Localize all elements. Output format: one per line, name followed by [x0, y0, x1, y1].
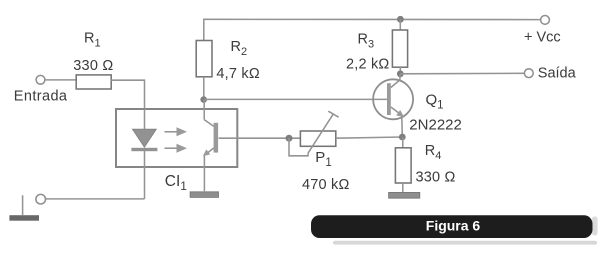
svg-text:R3: R3	[358, 32, 375, 51]
ground CI1 emitter	[190, 192, 218, 198]
LED D inside CI1	[131, 109, 157, 199]
svg-text:2N2222: 2N2222	[409, 117, 462, 134]
terminal input low	[36, 194, 46, 204]
potentiometer P1	[289, 111, 339, 156]
wire top rail	[204, 19, 541, 40]
phototransistor of CI1	[203, 100, 218, 192]
svg-text:Entrada: Entrada	[14, 89, 68, 105]
light arrow 2	[165, 144, 188, 153]
svg-text:Figura 6: Figura 6	[426, 217, 481, 233]
wire R2 bottom to base node	[203, 77, 205, 100]
svg-text:470 kΩ: 470 kΩ	[302, 177, 350, 193]
node base junction below R2	[200, 96, 207, 103]
resistor R4	[395, 137, 411, 192]
svg-text:P1: P1	[315, 149, 331, 169]
terminal +Vcc	[541, 16, 550, 25]
svg-text:330 Ω: 330 Ω	[416, 170, 456, 186]
svg-text:330 Ω: 330 Ω	[73, 58, 113, 74]
light arrow 1	[165, 127, 188, 136]
wire base node to Q1 base	[204, 98, 387, 100]
ground input	[9, 195, 39, 221]
svg-text:Saída: Saída	[538, 65, 577, 81]
resistor R2	[196, 41, 212, 77]
node Saida junction	[397, 70, 404, 77]
node top rail / R3 junction	[397, 16, 404, 23]
resistor R1	[76, 75, 111, 89]
transistor Q1	[373, 74, 413, 137]
figura banner	[311, 215, 593, 238]
terminal Saida	[524, 69, 533, 78]
svg-text:2,2 kΩ: 2,2 kΩ	[346, 56, 389, 72]
svg-text:CI1: CI1	[165, 173, 188, 193]
svg-text:Q1: Q1	[426, 91, 444, 111]
wire R1 to LED anode	[111, 80, 144, 110]
svg-text:R4: R4	[425, 143, 442, 162]
svg-text:R1: R1	[84, 31, 101, 50]
optocoupler CI1 box	[116, 109, 237, 167]
svg-text:4,7 kΩ: 4,7 kΩ	[216, 66, 259, 82]
node P1 left junction	[286, 135, 293, 142]
figura banner shadow	[333, 241, 597, 245]
terminal Entrada	[36, 75, 45, 84]
ground R4	[389, 192, 420, 198]
wire phototransistor base to P1	[219, 137, 301, 139]
wire Entrada to R1	[45, 79, 76, 81]
wire lower input terminal	[45, 198, 144, 200]
wire P1 to R4 node	[336, 137, 403, 138]
figura banner edge artifact	[592, 217, 598, 236]
svg-text:R2: R2	[231, 39, 248, 58]
svg-text:+ Vcc: + Vcc	[524, 29, 561, 45]
node R4 top junction	[399, 134, 406, 141]
resistor R3	[392, 19, 407, 74]
wire Saida	[400, 72, 524, 75]
